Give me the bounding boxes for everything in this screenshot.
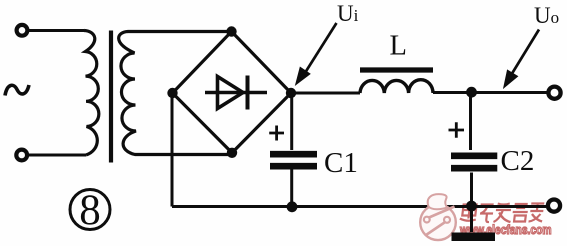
node bottom vertex — [227, 148, 237, 158]
terminal output negative — [548, 200, 560, 212]
svg-text:Ui: Ui — [337, 1, 359, 26]
transformer secondary winding — [119, 32, 232, 155]
svg-text:C1: C1 — [324, 147, 358, 179]
terminal output positive — [548, 87, 560, 99]
node top vertex — [226, 26, 236, 36]
ground bar — [452, 233, 496, 242]
diode D1 lead line — [205, 91, 267, 94]
wire T1 to primary — [28, 29, 84, 32]
svg-text:L: L — [390, 30, 407, 61]
capacitor C1 top wire — [290, 93, 293, 150]
capacitor C1 plates — [270, 154, 317, 166]
transformer core — [109, 31, 113, 163]
bridge rectifier diamond — [173, 32, 292, 153]
node right vertex Ui — [286, 88, 296, 98]
node C2 bottom junction — [466, 201, 477, 212]
wire C2 junction down to ground — [470, 206, 473, 232]
wire inductor to output terminal — [433, 91, 547, 94]
wire right vertex to inductor — [291, 92, 360, 95]
AC source tilde — [5, 85, 29, 96]
plus polarity C2 — [449, 122, 465, 138]
capacitor C2 bottom wire — [470, 173, 473, 207]
inductor core bar — [360, 67, 433, 72]
svg-text:Uo: Uo — [534, 3, 559, 28]
bottom rail wire — [172, 205, 547, 208]
arrow Uo — [505, 30, 540, 87]
capacitor C2 top wire — [469, 92, 472, 150]
capacitor C2 plates — [451, 156, 497, 168]
wire T2 to primary — [28, 154, 86, 157]
diode D1 triangle — [218, 77, 244, 109]
watermark logo — [420, 194, 456, 240]
terminal T2 (AC input bottom-left) — [16, 150, 27, 161]
capacitor C1 bottom wire — [290, 170, 293, 207]
inductor L winding — [360, 80, 433, 93]
node C1 bottom junction — [287, 201, 298, 212]
terminal T1 (AC input top-left) — [17, 25, 28, 36]
svg-text:8: 8 — [79, 187, 101, 234]
transformer primary winding — [84, 31, 99, 156]
wire left vertex down to bottom rail — [171, 93, 174, 207]
arrow Ui — [297, 23, 337, 84]
circled figure number 8 — [70, 190, 110, 230]
node C2 top junction — [466, 87, 477, 98]
plus polarity C1 — [269, 126, 284, 141]
svg-text:C2: C2 — [501, 145, 535, 177]
watermark chinese text 电子发烧友 — [459, 202, 544, 223]
node left vertex — [167, 88, 177, 98]
diode D1 cathode bar — [246, 76, 250, 110]
